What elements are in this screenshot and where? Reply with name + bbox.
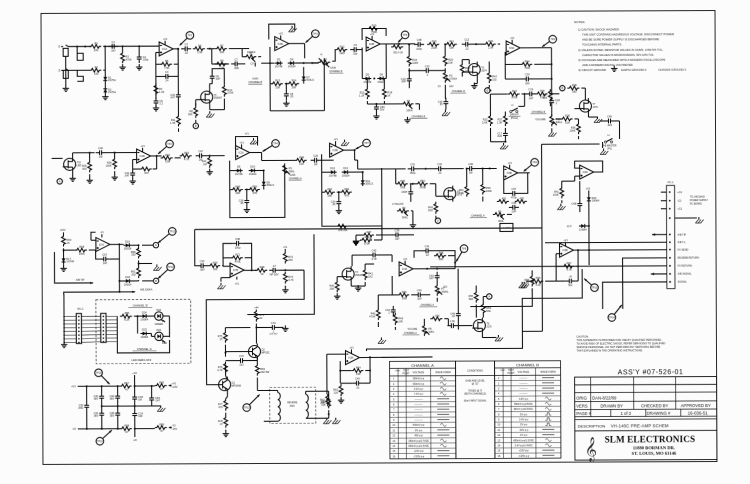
resistor R25 <box>489 114 493 126</box>
ground <box>155 105 157 108</box>
resistor R47B <box>487 71 491 83</box>
svg-text:C12: C12 <box>425 64 430 68</box>
svg-text:D13: D13 <box>343 166 348 170</box>
svg-text:+V1: +V1 <box>510 37 515 40</box>
wire <box>411 210 413 212</box>
wire <box>303 67 305 74</box>
test point TP1 <box>186 32 194 40</box>
wire <box>244 269 256 271</box>
wire <box>475 286 477 291</box>
wire <box>574 108 578 110</box>
resistor R56 <box>336 224 348 228</box>
wire <box>352 254 369 256</box>
resistor R9 <box>215 62 227 66</box>
capacitor C50a <box>101 392 103 396</box>
svg-text:C7: C7 <box>234 57 238 61</box>
ground <box>375 113 377 116</box>
svg-text:D22: D22 <box>156 308 161 312</box>
capacitor C2 <box>138 46 140 53</box>
svg-text:+V1: +V1 <box>403 258 408 261</box>
svg-text:39P: 39P <box>401 79 406 83</box>
wire <box>104 83 106 87</box>
svg-text:330: 330 <box>131 272 136 276</box>
svg-text:100p: 100p <box>143 58 149 62</box>
resistor R46E <box>416 182 428 186</box>
svg-text:C29: C29 <box>313 154 318 158</box>
svg-text:580mV p-p/3VDC: 580mV p-p/3VDC <box>514 403 533 406</box>
op-amp IC2A <box>236 146 250 160</box>
svg-text:1M: 1M <box>469 171 473 175</box>
svg-text:J175: J175 <box>457 193 463 196</box>
svg-text:+V1: +V1 <box>244 133 249 136</box>
svg-text:VOLUME: VOLUME <box>408 329 418 331</box>
resistor R67 <box>120 384 132 388</box>
diode D17 <box>63 256 65 264</box>
wire <box>445 108 447 110</box>
svg-text:R19: R19 <box>372 23 377 27</box>
resistor R66 <box>155 426 167 430</box>
wire <box>488 61 490 70</box>
wire <box>134 315 140 317</box>
wire <box>332 50 337 62</box>
wire <box>361 75 363 78</box>
svg-text:POWER SUPPLY: POWER SUPPLY <box>690 200 709 202</box>
svg-text:35V: 35V <box>110 397 115 401</box>
led LED1 <box>155 312 163 320</box>
node A <box>153 242 158 247</box>
svg-text:TOUCHING INTERNAL PARTS.: TOUCHING INTERNAL PARTS. <box>582 43 622 47</box>
svg-text:R24: R24 <box>488 39 493 43</box>
ground <box>473 83 475 86</box>
wire <box>250 151 262 153</box>
ground <box>521 282 523 284</box>
resistor R62 <box>326 394 330 406</box>
svg-text:P2: P2 <box>324 57 328 61</box>
potentiometer P2 <box>318 60 330 64</box>
svg-text:1.2K: 1.2K <box>359 93 365 97</box>
svg-text:RED: RED <box>162 342 167 345</box>
resistor R45E <box>396 182 408 186</box>
svg-text:IC7B: IC7B <box>233 270 239 272</box>
ground <box>497 335 499 337</box>
svg-text:68K: 68K <box>439 257 444 261</box>
svg-text:80mV p-p/0.5VDC: 80mV p-p/0.5VDC <box>514 408 534 411</box>
node B <box>485 88 490 93</box>
svg-text:R10: R10 <box>432 39 437 43</box>
reverb pan dashed box <box>270 387 316 423</box>
wire <box>119 280 123 282</box>
wire <box>65 56 67 87</box>
ground <box>412 222 414 225</box>
svg-text:220 35V: 220 35V <box>269 333 278 335</box>
resistor R15 <box>365 87 369 99</box>
wire <box>472 43 484 45</box>
wire <box>364 264 366 268</box>
wire <box>134 385 155 387</box>
op-amp IC5A <box>345 351 359 365</box>
wire <box>489 112 491 114</box>
resistor R66b <box>531 279 543 283</box>
svg-text:4.2V p-p: 4.2V p-p <box>414 388 424 391</box>
ground <box>357 285 359 288</box>
wire <box>101 386 103 392</box>
wire node <box>177 49 179 91</box>
svg-text:500: 500 <box>82 167 87 171</box>
node B <box>560 85 565 90</box>
svg-text:R49: R49 <box>260 265 265 269</box>
svg-text:750K: 750K <box>371 30 377 34</box>
svg-text:TP15: TP15 <box>592 287 598 290</box>
resistor R60c <box>430 317 442 321</box>
wire <box>575 175 580 177</box>
capacitor C44 <box>392 306 394 310</box>
svg-text:R67: R67 <box>124 381 129 385</box>
wire <box>461 60 463 63</box>
svg-text:D4: D4 <box>290 57 294 61</box>
table header lines <box>390 367 456 369</box>
svg-text:R49: R49 <box>235 184 240 188</box>
wire <box>377 295 379 308</box>
svg-text:NOTES:: NOTES: <box>574 20 585 24</box>
svg-text:200p: 200p <box>235 246 241 250</box>
resistor R63 <box>339 384 343 396</box>
wire <box>91 239 96 241</box>
svg-text:.22: .22 <box>438 171 442 175</box>
resistor R55b <box>497 200 509 204</box>
svg-text:500LS: 500LS <box>267 183 275 187</box>
wire <box>574 249 667 251</box>
svg-text:10K: 10K <box>292 85 297 89</box>
resistor R23 feedback <box>520 62 532 66</box>
svg-text:56K: 56K <box>469 297 474 301</box>
node A <box>487 294 492 299</box>
wire <box>490 93 507 95</box>
ground <box>72 175 74 178</box>
ground <box>63 265 65 268</box>
wire <box>481 334 483 338</box>
wire <box>110 243 124 245</box>
svg-text:3) VOLTAGES ARE MEASURED WITH: 3) VOLTAGES ARE MEASURED WITH A MODERN O… <box>578 58 665 62</box>
wire <box>207 48 215 50</box>
svg-text:.047: .047 <box>417 297 423 301</box>
ground <box>209 169 211 172</box>
svg-text:1N914: 1N914 <box>342 174 350 178</box>
svg-text:MPS3C: MPS3C <box>261 351 270 354</box>
wire <box>117 386 119 392</box>
ground <box>104 94 106 97</box>
wire input A <box>52 157 63 159</box>
svg-text:470K: 470K <box>369 314 375 318</box>
capacitor C9 <box>350 49 354 51</box>
wire a/b signal arrow <box>651 273 667 275</box>
svg-text:IC2B: IC2B <box>369 44 375 46</box>
capacitor C50 <box>375 103 377 107</box>
capacitor C12 <box>422 70 426 72</box>
svg-text:R11: R11 <box>449 39 454 43</box>
svg-text:1.5K: 1.5K <box>170 121 176 125</box>
svg-text:35V: 35V <box>94 414 99 418</box>
diode D6 <box>377 77 385 79</box>
wire <box>226 376 228 380</box>
svg-text:TP14: TP14 <box>609 316 615 319</box>
svg-text:IC1B: IC1B <box>140 156 146 158</box>
ground <box>246 207 248 210</box>
svg-text:670K: 670K <box>364 242 370 246</box>
wire <box>63 264 65 266</box>
wire <box>466 169 468 185</box>
wire <box>264 420 278 422</box>
svg-text:100K: 100K <box>79 252 85 256</box>
svg-text:R43: R43 <box>184 151 189 155</box>
svg-text:R55: R55 <box>125 311 130 315</box>
resistor R68b <box>120 427 132 431</box>
svg-text:50KL: 50KL <box>428 330 435 334</box>
wire <box>476 167 497 169</box>
svg-text:CHANNEL A: CHANNEL A <box>411 363 434 368</box>
svg-text:.047: .047 <box>170 95 176 99</box>
diode D2 <box>104 87 106 95</box>
svg-text:WAVE FORM: WAVE FORM <box>435 371 450 374</box>
svg-text:CAUTION:: CAUTION: <box>576 335 589 339</box>
svg-text:V5E: V5E <box>400 185 405 189</box>
svg-text:330: 330 <box>131 253 136 257</box>
svg-text:CHANNEL A: CHANNEL A <box>289 177 302 180</box>
svg-text:A: A <box>488 294 490 298</box>
svg-text:ASS'Y #07-526-01: ASS'Y #07-526-01 <box>618 369 684 376</box>
svg-text:PAN: PAN <box>290 405 295 408</box>
resistor R1 <box>89 44 101 48</box>
capacitor C43 <box>436 272 438 276</box>
coil primary <box>278 392 281 421</box>
wire feedback <box>575 161 603 172</box>
coil secondary <box>306 394 309 418</box>
wire <box>551 107 553 117</box>
wire <box>407 43 415 45</box>
svg-text:----------: ---------- <box>415 403 423 406</box>
wire <box>173 48 178 50</box>
wire bus into box <box>261 62 274 64</box>
wire <box>581 87 585 89</box>
svg-text:VOLUME: VOLUME <box>535 118 546 121</box>
resistor R71 feedback <box>231 256 243 260</box>
svg-text:CHANNEL 'A': CHANNEL 'A' <box>137 348 153 351</box>
svg-text:IC4A: IC4A <box>402 268 408 271</box>
wire <box>62 232 64 234</box>
svg-text:270KA: 270KA <box>449 76 457 80</box>
potentiometer P4 <box>401 102 413 106</box>
svg-text:R21 4.3K: R21 4.3K <box>393 52 403 54</box>
wire <box>413 268 455 270</box>
capacitor C7 <box>231 63 235 65</box>
capacitor C49 <box>604 120 608 122</box>
svg-text:NP 50V: NP 50V <box>270 272 279 276</box>
svg-text:C40: C40 <box>417 288 422 292</box>
wire bus2 <box>522 330 542 332</box>
svg-text:.022: .022 <box>497 134 503 138</box>
resistor R12 <box>335 48 347 52</box>
wire <box>551 128 553 130</box>
wire box gain A <box>230 160 285 217</box>
svg-text:D9: D9 <box>237 165 241 169</box>
wire <box>462 71 467 73</box>
wire <box>520 47 551 49</box>
svg-text:+V1: +V1 <box>279 32 284 35</box>
ground <box>122 64 124 67</box>
wire bus <box>247 234 314 314</box>
svg-text:TP2: TP2 <box>167 143 172 146</box>
svg-text:LED DEMO-OFF: LED DEMO-OFF <box>132 358 152 362</box>
capacitor C31 <box>408 168 412 170</box>
svg-text:15K: 15K <box>449 46 454 50</box>
capacitor C47 <box>196 155 200 157</box>
svg-text:1M: 1M <box>203 162 207 166</box>
diode D4 <box>288 62 296 64</box>
svg-text:R28: R28 <box>565 114 570 118</box>
svg-text:DRAWN BY: DRAWN BY <box>600 404 623 409</box>
diode D19 <box>124 244 132 246</box>
svg-text:5V p-p: 5V p-p <box>520 413 528 416</box>
test point TP12 <box>167 263 175 271</box>
resistor R42 <box>161 156 173 160</box>
svg-text:200p: 200p <box>416 47 422 51</box>
svg-text:R13: R13 <box>275 79 280 83</box>
resistor R44 <box>397 293 409 297</box>
ground <box>291 26 293 28</box>
svg-text:200: 200 <box>525 81 530 85</box>
wire <box>178 128 180 131</box>
ground <box>355 239 357 242</box>
resistor R80 <box>327 396 331 408</box>
svg-text:-C2: -C2 <box>677 200 682 203</box>
svg-text:11880 BORMAN DR.: 11880 BORMAN DR. <box>633 445 675 450</box>
svg-text:CV: CV <box>250 61 254 65</box>
svg-text:CHANNEL 'B': CHANNEL 'B' <box>133 304 149 307</box>
resistor R41c <box>363 268 367 280</box>
wire a/b t.l. <box>545 241 667 244</box>
wire <box>72 153 74 156</box>
wire <box>526 280 531 282</box>
resistor R37 feedback <box>133 168 141 170</box>
svg-text:470K: 470K <box>366 237 372 241</box>
resistor R46c <box>376 308 380 320</box>
wire <box>106 315 117 317</box>
svg-text:220: 220 <box>334 390 339 394</box>
potentiometer P5 <box>283 163 287 175</box>
svg-text:1M: 1M <box>138 398 142 402</box>
wire <box>435 201 437 203</box>
op-amp IC7B <box>230 263 244 277</box>
svg-text:56K: 56K <box>188 112 193 116</box>
diode D11 <box>362 178 364 186</box>
diode D7 <box>303 74 305 82</box>
resistor R10 <box>222 85 226 97</box>
svg-text:C36: C36 <box>468 162 473 166</box>
wire <box>77 46 83 60</box>
wire <box>410 183 416 185</box>
svg-text:10K: 10K <box>448 60 453 64</box>
svg-text:B: B <box>486 89 488 93</box>
svg-text:18K: 18K <box>235 191 240 195</box>
wire <box>549 89 551 91</box>
wire <box>195 120 197 123</box>
capacitor C22 <box>132 169 134 173</box>
svg-text:R42: R42 <box>165 153 170 157</box>
svg-text:THIS UNIT CONTAINS HAZARDOUS V: THIS UNIT CONTAINS HAZARDOUS VOLTAGE. DI… <box>582 32 674 36</box>
svg-text:4.7K: 4.7K <box>217 368 223 372</box>
op-amp IC8A <box>580 165 594 179</box>
svg-text:+V1: +V1 <box>239 141 244 144</box>
svg-text:CHANNEL A: CHANNEL A <box>404 332 417 335</box>
svg-text:+V3: +V3 <box>71 385 76 388</box>
capacitor C56 <box>269 269 273 271</box>
svg-text:230 5W: 230 5W <box>260 370 270 374</box>
svg-text:500LS: 500LS <box>366 181 374 185</box>
svg-text:----------: ---------- <box>519 387 527 390</box>
wire <box>225 430 227 432</box>
resistor R10B <box>427 42 439 46</box>
svg-text:-V3: -V3 <box>72 428 77 431</box>
resistor R11 <box>177 114 181 126</box>
wire <box>507 213 512 215</box>
svg-text:IC1A: IC1A <box>162 48 168 51</box>
resistor R11B <box>445 42 457 46</box>
svg-text:470: 470 <box>502 196 507 200</box>
wire <box>395 183 398 185</box>
svg-text:.22: .22 <box>425 253 429 257</box>
ground <box>220 283 222 285</box>
wire <box>675 217 697 219</box>
wire <box>255 309 257 311</box>
svg-text:THAT EXPLAINED IN THE OPERATIN: THAT EXPLAINED IN THE OPERATING INSTRUCT… <box>576 348 643 352</box>
resistor R61 <box>137 266 141 278</box>
svg-text:1K5E: 1K5E <box>420 185 427 189</box>
capacitor C33b <box>410 188 412 192</box>
capacitor C33 <box>197 265 201 267</box>
svg-text:100: 100 <box>213 267 218 271</box>
resistor R53 <box>323 190 335 194</box>
wire <box>305 391 307 394</box>
capacitor C37 feedback <box>509 192 513 194</box>
resistor R49b <box>255 268 267 272</box>
svg-text:.047: .047 <box>102 261 108 265</box>
svg-text:2N5457: 2N5457 <box>214 97 223 100</box>
resistor R43 <box>180 154 192 158</box>
svg-text:56K: 56K <box>486 309 491 313</box>
capacitor C16b <box>445 98 447 102</box>
svg-text:1) CAUTION: SHOCK HAZARD!!: 1) CAUTION: SHOCK HAZARD!! <box>578 27 619 31</box>
svg-text:25K: 25K <box>330 286 335 290</box>
wire <box>410 184 412 188</box>
wire <box>134 386 136 393</box>
resistor R60 <box>62 234 66 246</box>
svg-text:R26: R26 <box>540 89 545 93</box>
diode D18 <box>124 280 132 282</box>
svg-text:1K: 1K <box>66 241 69 245</box>
ground <box>284 325 286 328</box>
transistor T10 jfet <box>64 158 76 170</box>
svg-text:+15V p-p: +15V p-p <box>414 450 424 453</box>
diode D9 <box>235 170 243 172</box>
svg-text:C4: C4 <box>165 70 169 74</box>
wire <box>602 142 604 148</box>
wire <box>587 114 589 117</box>
resistor R47c <box>362 233 374 237</box>
svg-text:C41: C41 <box>425 244 430 248</box>
wire <box>444 85 446 99</box>
svg-text:D6: D6 <box>380 73 384 77</box>
svg-text:10P: 10P <box>512 210 517 214</box>
svg-text:10M: 10M <box>402 296 407 300</box>
